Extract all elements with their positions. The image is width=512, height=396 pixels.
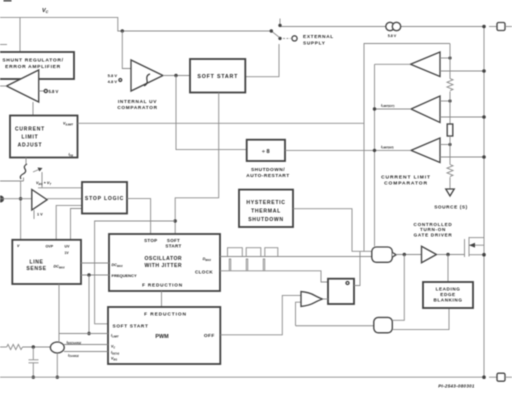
wire mirror out 2: [64, 352, 108, 359]
wire control bus: [0, 198, 32, 200]
wire line sense down: [59, 275, 108, 343]
svg-text:SOURCE (S): SOURCE (S): [434, 204, 468, 209]
svg-text:GATE DRIVER: GATE DRIVER: [414, 232, 453, 237]
resistor chain top: [449, 44, 451, 79]
node figure label: [438, 383, 475, 388]
wire comparator to soft start line: [33, 210, 35, 219]
node RC junction: [32, 345, 35, 348]
svg-text:LEADING: LEADING: [436, 286, 461, 291]
svg-text:ILIMIT(EXT): ILIMIT(EXT): [381, 104, 395, 109]
svg-text:CURRENT: CURRENT: [15, 127, 45, 133]
svg-text:EXTERNAL: EXTERNAL: [303, 34, 334, 39]
pin DRAIN (D): [489, 23, 512, 31]
ground source: [434, 177, 468, 209]
svg-text:4.8 V: 4.8 V: [108, 79, 118, 84]
svg-text:STOP LOGIC: STOP LOGIC: [85, 196, 124, 202]
node soft start branch: [174, 219, 177, 222]
comparator C: [411, 138, 440, 163]
leading edge blanking box: [423, 255, 473, 309]
svg-text:SOFT START: SOFT START: [197, 74, 238, 80]
current limit adjust box: [10, 116, 78, 158]
wire G1 output: [323, 298, 329, 300]
latch box: [328, 279, 354, 304]
svg-text:OSCILLATOR: OSCILLATOR: [144, 256, 182, 262]
svg-text:CLOCK: CLOCK: [195, 270, 213, 275]
svg-text:SHUTDOWN: SHUTDOWN: [248, 217, 284, 223]
wire stop input 3: [56, 205, 82, 240]
gate G2: [374, 317, 393, 332]
svg-text:SOFT START: SOFT START: [113, 323, 149, 328]
node current limit comparator label: [381, 174, 431, 186]
pin SOURCE bottom: [489, 373, 512, 381]
svg-text:SHUTDOWN/: SHUTDOWN/: [251, 167, 285, 173]
op-amp error amplifier: [0, 70, 58, 102]
node pwm soft start branch: [95, 221, 176, 324]
wire DMAX output: [220, 256, 372, 258]
svg-text:F REDUCTION: F REDUCTION: [144, 311, 187, 317]
wire comp C inputs: [440, 143, 486, 159]
pwm box: [108, 307, 220, 364]
wire error amp to limit adjust: [32, 102, 34, 115]
svg-text:OFF: OFF: [204, 333, 215, 339]
svg-text:STOP: STOP: [144, 238, 157, 243]
wire comp A output: [375, 63, 411, 65]
comparator A: [411, 52, 441, 77]
wire comp B output: [373, 104, 411, 111]
current mirror oval: [50, 342, 64, 353]
wire chain mid2: [449, 136, 451, 165]
oscillator box: [109, 234, 220, 291]
node VC corner junction: [121, 29, 131, 68]
wire chain mid1: [449, 92, 451, 125]
gate G0: [372, 247, 396, 262]
wire line sense out 2: [81, 273, 109, 276]
svg-text:UV: UV: [65, 245, 71, 249]
wire bottom source bus: [0, 375, 486, 379]
wire to gate G2: [296, 325, 374, 327]
wire driver to gate: [437, 253, 465, 256]
svg-text:5.8 V: 5.8 V: [49, 89, 59, 94]
thermal shutdown box: [239, 190, 293, 227]
comparator internal UV: [108, 60, 163, 110]
wire stop input 4: [71, 209, 83, 241]
wire top supply bus: [280, 26, 484, 28]
svg-text:CURRENT LIMIT: CURRENT LIMIT: [381, 174, 431, 180]
wire VC bus top-left: [0, 17, 271, 31]
wire comparator to stop logic: [47, 198, 82, 200]
svg-text:COMPARATOR: COMPARATOR: [384, 181, 428, 187]
svg-text:ADJUST: ADJUST: [18, 143, 43, 149]
wire line sense out 1: [81, 262, 109, 264]
resistor RE: [0, 344, 51, 349]
wire G2 output: [392, 255, 404, 321]
svg-text:1V: 1V: [65, 251, 70, 255]
svg-text:÷ 8: ÷ 8: [262, 149, 270, 155]
svg-text:ERROR AMPLIFIER: ERROR AMPLIFIER: [5, 64, 61, 70]
capacitor CE: [29, 347, 39, 377]
svg-text:BLANKING: BLANKING: [433, 298, 462, 303]
resistor R2 box: [447, 124, 453, 136]
svg-text:SOFT: SOFT: [167, 238, 180, 243]
svg-text:EDGE: EDGE: [440, 292, 455, 297]
node cap ground: [32, 376, 35, 379]
svg-text:AUTO-RESTART: AUTO-RESTART: [246, 173, 289, 179]
wire regulator feed: [19, 17, 21, 52]
wire latch output: [354, 251, 360, 285]
svg-text:START: START: [165, 244, 181, 249]
wire comparator output bus: [374, 64, 376, 246]
wire switch to soft start: [245, 44, 279, 77]
wire thermal output: [293, 209, 372, 252]
wire UV comparator output: [163, 74, 190, 77]
svg-text:OVP: OVP: [46, 245, 54, 249]
wire comp C output: [373, 145, 411, 152]
pin X wire: [0, 178, 24, 241]
stop logic box: [82, 182, 127, 214]
node drain bus top: [482, 25, 486, 29]
wire UV node to divider: [176, 76, 247, 150]
svg-text:F REDUCTION: F REDUCTION: [142, 282, 183, 287]
wire stop input 1: [38, 187, 82, 189]
node VBG label: [36, 181, 51, 186]
wire G0 output: [396, 253, 421, 256]
svg-text:COMPARATOR: COMPARATOR: [117, 105, 157, 110]
svg-text:SENSE: SENSE: [26, 266, 46, 272]
wire stop logic output: [127, 199, 151, 234]
svg-text:INTERNAL UV: INTERNAL UV: [118, 99, 157, 104]
waveform CLOCK: [229, 259, 264, 271]
wire current limit bus: [78, 44, 451, 252]
wire soft start to oscillator: [175, 93, 219, 235]
wire mirror out 1: [64, 341, 108, 346]
wire comp A inputs: [440, 56, 486, 72]
wire LEB to G2: [392, 308, 449, 330]
node external supply label: [303, 34, 334, 45]
wire oscillator to pwm: [161, 291, 163, 307]
soft start box: [190, 59, 245, 93]
transistor output MOSFET: [465, 237, 486, 257]
wire mirror ground: [56, 353, 59, 379]
divider box: [246, 140, 289, 179]
comparator B: [411, 96, 440, 123]
node OFF branch: [296, 302, 302, 326]
svg-text:LIMIT: LIMIT: [21, 135, 38, 141]
shunt regulator box: [0, 52, 74, 79]
wire cut stub left: [0, 44, 7, 46]
svg-text:THERMAL: THERMAL: [251, 209, 281, 215]
svg-text:5.8 V: 5.8 V: [388, 34, 397, 38]
wire drain vertical bus: [483, 27, 485, 378]
svg-text:PWM: PWM: [155, 334, 169, 340]
svg-text:PI-2543-080301: PI-2543-080301: [438, 383, 475, 388]
cut label top left: [4, 0, 12, 2]
wire OFF output: [220, 295, 301, 334]
pin C bubble: [0, 196, 4, 203]
svg-text:SUPPLY: SUPPLY: [303, 41, 326, 46]
driver triangle: [414, 222, 453, 263]
svg-text:WITH JITTER: WITH JITTER: [145, 263, 182, 269]
line sense box: [12, 240, 81, 284]
gate G1: [301, 292, 323, 307]
svg-text:SHUNT REGULATOR/: SHUNT REGULATOR/: [2, 58, 63, 64]
comparator 1V: [32, 190, 47, 217]
transistor current limit: [20, 158, 42, 188]
resistor R3: [447, 165, 453, 177]
svg-text:1 V: 1 V: [37, 213, 43, 217]
waveform DMAX: [228, 248, 278, 257]
current source ICD: [386, 22, 401, 38]
wire CLOCK output: [220, 271, 328, 282]
svg-text:HYSTERETIC: HYSTERETIC: [246, 200, 285, 206]
switch external supply: [270, 19, 298, 42]
svg-text:FREQUENCY: FREQUENCY: [112, 273, 137, 278]
svg-text:LINE: LINE: [29, 259, 43, 265]
wire divider output: [285, 149, 375, 151]
svg-text:5.8 V: 5.8 V: [108, 73, 118, 78]
wire comp B inputs: [440, 99, 486, 118]
node VC label: [42, 8, 49, 14]
resistor R1: [447, 79, 453, 91]
